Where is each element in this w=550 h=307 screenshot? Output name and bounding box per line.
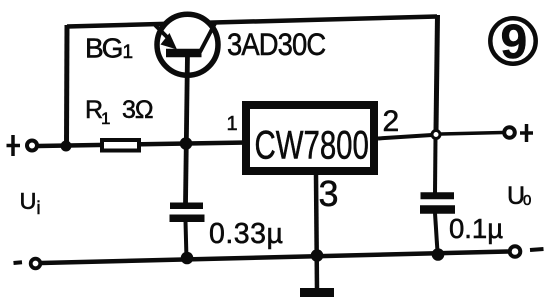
minus sign input: [14, 260, 23, 265]
svg-text:0: 0: [523, 192, 531, 209]
capacitor C1 0.33u: [170, 206, 205, 218]
label 0.33u: [209, 218, 283, 250]
node pin 3 bottom junction: [311, 249, 324, 262]
wire pin 2 to output node: [378, 135, 432, 139]
svg-text:BG: BG: [85, 33, 122, 64]
terminal input plus: [27, 141, 37, 151]
plus sign output: [520, 124, 533, 142]
node input junction: [61, 141, 72, 152]
ground: [300, 288, 334, 297]
pin 2 label: [383, 105, 400, 138]
wire top rail: [67, 17, 437, 27]
svg-text:U: U: [20, 188, 37, 214]
wire C1 lower lead: [186, 221, 187, 259]
svg-text:3Ω: 3Ω: [122, 96, 153, 124]
wire bottom rail (-): [41, 252, 508, 264]
wire output node down to C2: [433, 138, 438, 193]
wire right vertical from top rail to output node: [436, 15, 438, 131]
svg-text:3: 3: [319, 173, 339, 214]
wire output node to plus terminal: [441, 133, 503, 135]
svg-text:9: 9: [501, 16, 528, 69]
node C2 bottom junction: [432, 248, 445, 261]
capacitor C2 0.1u: [420, 196, 455, 210]
plus sign input: [7, 135, 21, 156]
svg-text:1: 1: [101, 109, 110, 128]
figure number 9: [490, 16, 535, 69]
label U0: [507, 182, 531, 210]
node C1 bottom junction: [181, 252, 194, 265]
wire pin 3 lead to ground: [316, 175, 317, 290]
svg-text:2: 2: [383, 105, 400, 138]
terminal output minus: [510, 246, 521, 257]
label Ui: [20, 188, 41, 218]
terminal output plus: [504, 127, 515, 138]
svg-text:3AD30C: 3AD30C: [227, 27, 326, 62]
svg-text:0.1µ: 0.1µ: [449, 213, 503, 244]
wire base lead down from transistor: [186, 53, 188, 204]
resistor R1: [102, 140, 139, 151]
svg-text:1: 1: [227, 113, 238, 135]
minus sign output: [530, 249, 544, 250]
IC U1 CW7800: [246, 105, 374, 171]
label 0.1u: [449, 213, 503, 244]
svg-text:0.33µ: 0.33µ: [209, 218, 283, 250]
svg-text:R: R: [85, 96, 102, 124]
label R1 3ohm: [85, 96, 153, 128]
label 3AD30C: [227, 27, 326, 62]
pin 1 label: [227, 113, 238, 135]
svg-text:i: i: [37, 198, 41, 218]
terminal input minus: [31, 259, 41, 269]
wire left vertical from top rail to input node: [64, 25, 70, 146]
svg-text:CW7800: CW7800: [255, 123, 369, 167]
node base junction: [180, 137, 193, 150]
pin 3 label: [319, 173, 339, 214]
label BG1: [85, 33, 133, 64]
svg-text:1: 1: [123, 42, 134, 63]
wire C2 lower lead: [435, 213, 438, 252]
transistor BG1: [155, 14, 218, 75]
wire input rail (+): [38, 143, 247, 147]
node output ring junction: [432, 131, 440, 139]
